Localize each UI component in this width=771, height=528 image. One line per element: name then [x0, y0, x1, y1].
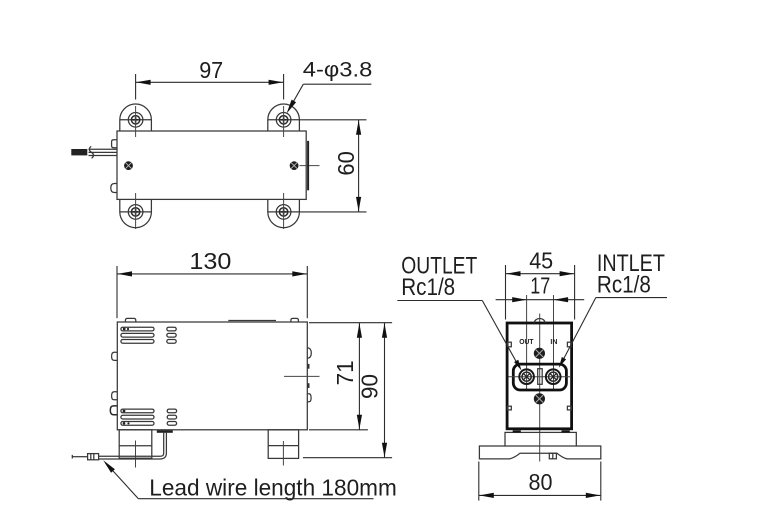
- port centerline (side view): [284, 375, 320, 377]
- left edge lug A (side view): [112, 352, 118, 360]
- mounting tab bottom-left: [120, 193, 152, 229]
- port extension line right (front view): [553, 295, 555, 389]
- dimension 71 (side view): [309, 323, 392, 430]
- mounting tab top-right: [268, 104, 300, 137]
- side view body: [117, 322, 307, 430]
- lid seam line (side view): [228, 320, 276, 322]
- right plate edge line: [307, 141, 309, 190]
- svg-text:Lead wire length 180mm: Lead wire length 180mm: [149, 475, 396, 501]
- right edge nub 2 (side view): [307, 383, 309, 388]
- left foot (side view): [119, 430, 152, 468]
- screw right mid-body: [290, 161, 320, 170]
- edge tab square upper-right (front view): [567, 342, 571, 347]
- vent slots top group (side view): [121, 327, 176, 343]
- svg-text:Rc1/8: Rc1/8: [401, 274, 455, 301]
- svg-text:4-φ3.8: 4-φ3.8: [303, 58, 373, 82]
- svg-text:130: 130: [189, 248, 231, 274]
- top view body: [117, 131, 306, 199]
- slot between ports (front view): [538, 369, 543, 385]
- base flange (front view): [479, 446, 600, 459]
- vent slots bottom group (side view): [121, 409, 177, 425]
- screw left mid-body: [124, 161, 133, 170]
- svg-text:90: 90: [357, 374, 383, 399]
- edge tab square lower-right (front view): [567, 406, 571, 410]
- label OUTLET Rc1/8 with leader: [397, 253, 523, 372]
- mounting tab top-left: [120, 104, 152, 137]
- port boss (front view): [513, 364, 566, 390]
- left edge lug B (side view): [112, 392, 118, 400]
- outlet port (front view): [519, 369, 534, 384]
- lead wires (top view): [71, 146, 117, 158]
- screw upper (front view): [534, 348, 545, 359]
- svg-text:17: 17: [530, 273, 550, 299]
- left edge lug lower (top view): [111, 184, 117, 193]
- pedestal (front view): [505, 431, 576, 446]
- top dome (front view): [534, 319, 545, 323]
- right foot (side view): [268, 430, 298, 466]
- svg-text:Rc1/8: Rc1/8: [597, 271, 651, 298]
- mounting tab bottom-right: [268, 193, 300, 229]
- svg-text:IN: IN: [550, 337, 557, 346]
- front view body (bold): [507, 323, 571, 429]
- svg-text:80: 80: [529, 469, 553, 495]
- screw lower (front view): [534, 393, 545, 404]
- dimension 130 (side view): [117, 248, 307, 318]
- left edge lug upper (top view): [112, 140, 117, 148]
- dimension 80 (front view): [479, 462, 601, 501]
- inlet port (front view): [546, 369, 561, 384]
- edge tab square upper-left (front view): [508, 342, 512, 347]
- svg-text:45: 45: [529, 248, 553, 274]
- bottom tab (front view): [549, 453, 556, 459]
- port horizontal centerline (front view): [509, 376, 572, 378]
- dimension 17 (front view): [496, 273, 585, 303]
- svg-text:OUT: OUT: [519, 337, 534, 346]
- left edge lug C (side view): [110, 406, 117, 415]
- svg-text:71: 71: [332, 360, 358, 385]
- lead wire label with leader: [101, 459, 397, 501]
- right edge nub 1 (side view): [307, 364, 309, 369]
- dimension 60 (top view): [300, 120, 367, 212]
- svg-text:97: 97: [199, 57, 223, 83]
- dimension 97 (top view): [136, 57, 284, 99]
- port extension line left (front view): [526, 295, 528, 389]
- right edge bump lower (side view): [307, 394, 311, 402]
- label IN (front view): [550, 337, 557, 346]
- right edge bump upper (side view): [307, 348, 311, 358]
- lead wire exit and wire (side view): [72, 430, 173, 459]
- label 4-phi3.8 with leader: [284, 58, 372, 115]
- dimension 90 (side view): [303, 323, 392, 458]
- top lid bump right (side view): [291, 318, 299, 322]
- svg-text:60: 60: [333, 151, 359, 176]
- label INTLET Rc1/8 with leader: [557, 250, 667, 369]
- label OUT (front view): [519, 337, 534, 346]
- edge tab square lower-left (front view): [508, 406, 512, 410]
- vertical centerline (front view): [539, 314, 541, 462]
- top lid bump left (side view): [125, 318, 135, 322]
- dimension 45 (front view): [506, 248, 575, 320]
